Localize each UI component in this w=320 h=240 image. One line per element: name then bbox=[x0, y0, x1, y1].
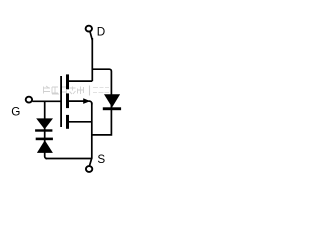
mosfet Q1 gate bar bbox=[60, 76, 62, 127]
wire: gate wire bbox=[32, 100, 62, 102]
watermark divider bbox=[89, 86, 91, 96]
wire: source vertical bbox=[91, 103, 93, 159]
mosfet Q1 channel segment drain bbox=[66, 74, 69, 89]
zener Z2 triangle bbox=[37, 140, 53, 153]
terminal S circle bbox=[86, 166, 92, 172]
mosfet Q1 channel segment source bbox=[66, 115, 69, 129]
wire: body corner down to source bbox=[89, 101, 92, 104]
zener Z1 triangle bbox=[36, 118, 53, 129]
body diode D1 cathode bar bbox=[103, 107, 121, 110]
svg-text:G: G bbox=[11, 106, 20, 119]
mosfet body arrow bbox=[83, 98, 90, 104]
wire: drain lead bbox=[68, 80, 92, 82]
wire: body lead bbox=[68, 100, 88, 102]
watermark text band bbox=[43, 86, 109, 96]
wire: D stem bbox=[90, 31, 92, 40]
wire: S stem bbox=[90, 158, 92, 166]
wire: top branch to body diode bbox=[92, 69, 112, 135]
terminal D circle bbox=[86, 26, 92, 32]
zener Z1 cathode bar bbox=[35, 129, 52, 131]
wire: left branch vertical bbox=[45, 101, 47, 158]
watermark small tagline 2 lines bbox=[93, 88, 109, 93]
zener Z2 cathode bar bbox=[36, 138, 53, 141]
terminal G circle bbox=[26, 97, 32, 103]
svg-text:D: D bbox=[97, 25, 105, 38]
wire: bottom rail bbox=[46, 158, 92, 160]
mosfet Q1 channel segment body bbox=[66, 93, 69, 108]
body diode D1 triangle bbox=[104, 94, 120, 107]
wire: drain vertical bbox=[91, 38, 93, 81]
svg-text:S: S bbox=[97, 153, 105, 166]
wire: source lead bbox=[68, 121, 92, 123]
